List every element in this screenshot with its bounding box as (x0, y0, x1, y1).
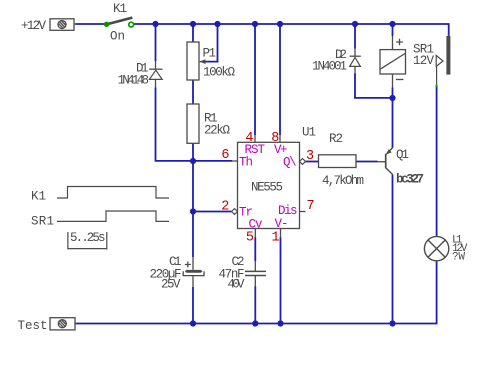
svg-text:5: 5 (246, 230, 254, 245)
svg-text:1N4148: 1N4148 (118, 74, 150, 88)
svg-text:Q\: Q\ (283, 156, 297, 170)
svg-text:7: 7 (307, 199, 315, 214)
svg-text:3: 3 (306, 149, 314, 164)
svg-text:2: 2 (221, 200, 229, 215)
svg-text:U1: U1 (302, 126, 316, 140)
svg-text:5..25s: 5..25s (70, 231, 106, 245)
svg-text:4,7kOhm: 4,7kOhm (322, 174, 364, 188)
svg-text:4: 4 (245, 131, 253, 146)
svg-text:R2: R2 (329, 132, 343, 146)
svg-text:40V: 40V (228, 278, 245, 292)
svg-text:12V: 12V (413, 54, 434, 68)
svg-text:Dis: Dis (278, 204, 298, 218)
svg-text:?W: ?W (452, 252, 465, 264)
svg-text:22kΩ: 22kΩ (204, 124, 230, 138)
svg-text:25V: 25V (161, 278, 181, 292)
svg-text:NE555: NE555 (251, 181, 283, 195)
svg-text:On: On (110, 30, 125, 44)
svg-text:P1: P1 (203, 47, 217, 61)
svg-text:100kΩ: 100kΩ (203, 66, 235, 80)
svg-text:bc327: bc327 (396, 173, 424, 187)
svg-text:Th: Th (239, 156, 253, 170)
svg-text:Q1: Q1 (396, 148, 409, 162)
svg-text:V-: V- (275, 217, 289, 231)
svg-text:+12V: +12V (21, 19, 46, 33)
svg-text:K1: K1 (113, 2, 127, 16)
svg-text:K1: K1 (31, 190, 46, 204)
svg-text:1N4001: 1N4001 (312, 60, 347, 74)
svg-text:Test: Test (18, 319, 48, 333)
svg-text:8: 8 (271, 131, 279, 146)
svg-text:6: 6 (221, 148, 229, 163)
svg-text:1: 1 (271, 230, 279, 245)
svg-text:SR1: SR1 (31, 215, 54, 229)
